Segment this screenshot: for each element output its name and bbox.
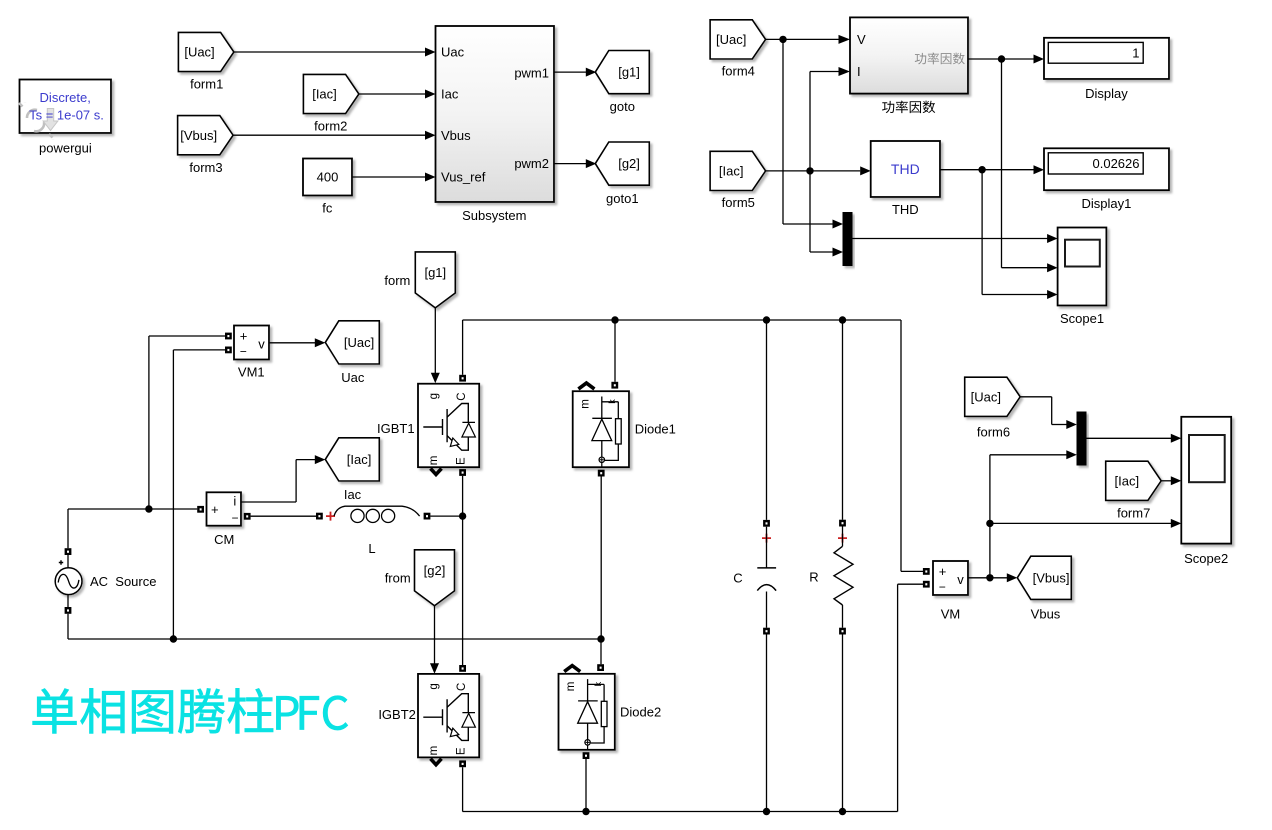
svg-text:goto: goto [610,99,635,114]
svg-text:v: v [258,337,265,352]
svg-text:[Iac]: [Iac] [719,164,744,179]
svg-text:m: m [428,456,440,466]
svg-text:[Uac]: [Uac] [344,335,374,350]
svg-text:+: + [939,564,947,579]
svg-text:[Uac]: [Uac] [184,45,214,60]
svg-text:Ts = 1e-07 s.: Ts = 1e-07 s. [29,107,104,122]
svg-text:goto1: goto1 [606,191,639,206]
svg-text:Vbus: Vbus [441,128,471,143]
svg-text:0.02626: 0.02626 [1093,156,1140,171]
svg-text:m: m [579,399,591,409]
svg-text:Vus_ref: Vus_ref [441,170,486,185]
svg-text:g: g [428,683,440,689]
svg-text:form: form [384,273,410,288]
svg-text:THD: THD [891,161,920,177]
svg-text:[Vbus]: [Vbus] [180,128,217,143]
svg-text:[g2]: [g2] [424,563,446,578]
svg-text:I: I [857,64,861,79]
svg-text:[Uac]: [Uac] [971,389,1001,404]
svg-text:Diode2: Diode2 [620,704,661,719]
svg-text:C: C [733,571,742,586]
svg-text:L: L [368,541,375,556]
svg-text:1: 1 [1132,45,1139,60]
svg-text:400: 400 [317,170,339,185]
svg-text:form1: form1 [190,77,223,92]
svg-text:−: − [240,344,247,358]
svg-text:Scope2: Scope2 [1184,551,1228,566]
svg-text:Discrete,: Discrete, [40,90,91,105]
svg-text:IGBT1: IGBT1 [377,421,415,436]
svg-text:Display: Display [1085,86,1128,101]
svg-text:i: i [233,494,236,509]
svg-text:Scope1: Scope1 [1060,311,1104,326]
svg-text:[Iac]: [Iac] [1115,473,1140,488]
svg-text:+: + [240,329,248,344]
svg-text:fc: fc [322,201,333,216]
svg-text:Uac: Uac [341,370,365,385]
svg-text:[Uac]: [Uac] [716,32,746,47]
svg-text:form6: form6 [977,424,1010,439]
svg-text:VM: VM [941,607,961,622]
svg-text:pwm2: pwm2 [514,156,549,171]
svg-text:THD: THD [892,202,919,217]
svg-text:form5: form5 [722,195,755,210]
svg-text:E: E [455,747,467,755]
svg-text:[g1]: [g1] [618,65,640,80]
svg-text:CM: CM [214,532,234,547]
svg-text:[Vbus]: [Vbus] [1033,570,1070,585]
svg-text:VM1: VM1 [238,365,265,380]
svg-text:v: v [957,572,964,587]
svg-text:Iac: Iac [441,87,459,102]
svg-text:g: g [428,393,440,399]
svg-text:[g1]: [g1] [424,265,446,280]
svg-text:Display1: Display1 [1081,196,1131,211]
svg-text:C: C [456,392,468,400]
svg-text:[g2]: [g2] [618,156,640,171]
svg-text:m: m [565,682,577,692]
svg-text:form3: form3 [189,160,222,175]
svg-text:form7: form7 [1117,505,1150,520]
svg-text:pwm1: pwm1 [514,66,549,81]
svg-text:Iac: Iac [344,487,362,502]
svg-text:−: − [939,580,946,594]
svg-text:Diode1: Diode1 [635,422,676,437]
svg-text:m: m [428,746,440,756]
svg-text:C: C [456,683,468,691]
svg-text:−: − [231,511,238,525]
svg-text:Uac: Uac [441,45,465,60]
svg-text:+: + [211,502,219,517]
svg-text:AC Source: AC Source [90,574,156,589]
svg-text:form4: form4 [722,63,755,78]
svg-text:powergui: powergui [39,141,92,156]
svg-text:from: from [385,570,411,585]
svg-text:[Iac]: [Iac] [347,452,372,467]
svg-text:Vbus: Vbus [1031,606,1061,621]
svg-text:[Iac]: [Iac] [312,87,337,102]
svg-text:IGBT2: IGBT2 [378,707,416,722]
svg-text:E: E [455,457,467,465]
svg-text:form2: form2 [314,119,347,134]
svg-text:R: R [809,570,818,585]
svg-text:Subsystem: Subsystem [462,208,526,223]
svg-text:V: V [857,32,866,47]
